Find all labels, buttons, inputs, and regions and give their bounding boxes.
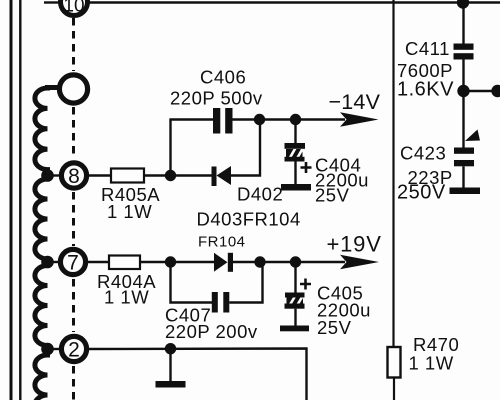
junction dot right edge (491, 85, 500, 97)
wire: down to ground (169, 349, 171, 381)
capacitor C423 (454, 148, 474, 167)
svg-text:1 1W: 1 1W (107, 201, 152, 222)
wire: pin 8 to R405A (87, 174, 112, 176)
junction dot C411/C423 node (457, 85, 469, 97)
capacitor C405 (electrolytic) (285, 262, 305, 326)
capacitor C411 (454, 44, 474, 60)
wire: node to D403 anode (171, 261, 215, 263)
transformer winding section 1 (35, 88, 58, 176)
svg-text:250V: 250V (397, 182, 446, 204)
capacitor C404 (electrolytic) (285, 120, 306, 185)
svg-text:+19V: +19V (327, 232, 382, 257)
wire: pin 2 bottom rail (87, 349, 307, 400)
svg-text:−14V: −14V (329, 90, 381, 114)
resistor R405A (111, 169, 144, 183)
capacitor C407 (212, 292, 230, 313)
junction dot at winding pin 8 (41, 169, 54, 182)
transformer pin 7 (circle) (60, 249, 85, 274)
junction dot D403 input (165, 256, 176, 267)
junction dot at winding pin 2 (41, 343, 54, 356)
wire: pin7 to winding junction (48, 261, 61, 263)
wire: node to right edge (464, 90, 500, 92)
polarity + of C405 (300, 279, 311, 290)
svg-text:25V: 25V (315, 185, 350, 206)
resistor R470 (388, 347, 401, 378)
junction dot node D402 input (165, 170, 176, 181)
junction dot top rail / C411 (457, 0, 469, 9)
ground bar under C404 (281, 184, 311, 191)
svg-text:D403FR104: D403FR104 (197, 209, 301, 230)
resistor R404A (109, 256, 140, 270)
polarity arrow marker near C423 (465, 130, 480, 142)
wire: left inner vertical line (19, 0, 21, 400)
transformer pin 8 (circle) (61, 163, 86, 188)
wire: C406 right plate to node (233, 118, 260, 120)
svg-text:1 1W: 1 1W (104, 287, 149, 308)
svg-text:8: 8 (68, 165, 80, 188)
junction dot at winding pin 7 (41, 256, 54, 269)
wire: node to C405 node (260, 261, 296, 263)
arrow head +19V output (340, 255, 379, 269)
wire: C423 to bottom bar (462, 166, 464, 188)
junction dot D403 output (254, 256, 265, 267)
diode D403 (214, 253, 233, 272)
junction dot bottom rail (165, 343, 176, 354)
wire: R404A to node (140, 261, 171, 263)
wire: below R470 (393, 378, 395, 400)
junction dot C404 top (290, 114, 301, 125)
svg-text:1 1W: 1 1W (409, 353, 454, 374)
ground bar under C405 (280, 326, 309, 332)
svg-text:C423: C423 (400, 143, 446, 164)
arrow head -14V output (340, 112, 379, 126)
capacitor C406 (213, 108, 233, 134)
wire: C407 right leg (229, 262, 262, 303)
ground bar bottom (156, 381, 186, 388)
transformer winding section 2 (35, 176, 48, 263)
transformer core (dashed line) (72, 18, 75, 400)
wire: pin 7 to R404A (86, 261, 110, 263)
wire: node to -14V arrow (296, 118, 346, 120)
wire: C407 left leg (171, 262, 213, 303)
wire: node to D402 cathode (171, 174, 213, 176)
wire: pin2 to winding junction (48, 348, 62, 350)
wire: pin8 to winding junction (48, 174, 62, 176)
transformer pin 2 (circle) (61, 336, 86, 361)
svg-text:1.6KV: 1.6KV (397, 79, 454, 101)
transformer winding section 4 (35, 349, 48, 400)
svg-text:25V: 25V (317, 317, 352, 338)
wire: top rail left of pin 10 (44, 1, 60, 3)
wire: node up to C406 (169, 120, 171, 176)
junction dot C405 top (290, 256, 301, 267)
wire: D403 cathode to node (233, 261, 260, 263)
wire: node down to C423 (462, 91, 464, 148)
wire: node to +19V arrow (296, 261, 346, 263)
chassis bar under C423 (450, 188, 481, 195)
wire: dot down to C411 (462, 3, 464, 45)
svg-text:220P 200v: 220P 200v (165, 321, 258, 342)
svg-text:7: 7 (67, 252, 79, 275)
wire: D402 anode to vertical riser (231, 120, 260, 176)
svg-text:D402: D402 (237, 184, 283, 205)
transformer pin (unnumbered circle) (59, 75, 87, 103)
wire: right vertical line to R470 (392, 0, 394, 348)
svg-text:220P 500v: 220P 500v (170, 88, 263, 109)
transformer pin 10 (circle) (61, 0, 88, 17)
svg-text:2: 2 (68, 339, 80, 362)
svg-text:C406: C406 (200, 67, 246, 88)
polarity + of C404 (301, 162, 312, 173)
junction dot C406 output (254, 114, 265, 125)
wire: to C406 left plate (169, 118, 213, 120)
svg-text:C411: C411 (405, 38, 450, 59)
diode D402 (212, 166, 232, 186)
transformer winding section 3 (35, 262, 48, 349)
wire: C411 to node (462, 60, 464, 92)
wire: top rail from pin 10 to right edge (88, 1, 500, 3)
wire: node to C404 node (260, 118, 296, 120)
svg-text:10: 10 (63, 0, 84, 17)
wire: left outer vertical line (10, 0, 13, 400)
wire: R405A to node (144, 174, 171, 176)
svg-text:FR104: FR104 (198, 234, 246, 251)
